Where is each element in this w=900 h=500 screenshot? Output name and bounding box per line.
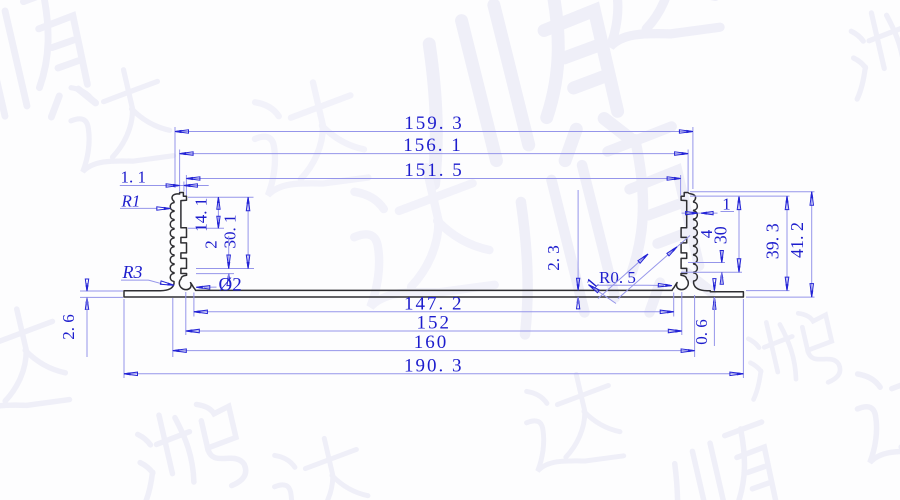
dim 39.3 line+arrows — [763, 196, 789, 291]
dim 1.1 line+arrows — [120, 168, 209, 188]
svg-text:Ø2: Ø2 — [219, 274, 242, 295]
dim 147.2 extension lines — [194, 293, 674, 317]
dim 2 line+arrows — [202, 236, 231, 286]
svg-text:0. 6: 0. 6 — [692, 319, 711, 345]
svg-text:156. 1: 156. 1 — [403, 135, 463, 156]
watermark glyph bottom-right — [654, 422, 784, 500]
svg-text:30. 1: 30. 1 — [221, 215, 240, 249]
svg-text:2: 2 — [202, 240, 221, 249]
dim 159.3 line+arrows — [175, 113, 693, 134]
svg-text:30: 30 — [711, 226, 731, 244]
watermark glyph top-left corner — [0, 0, 98, 137]
dim 151.5 line+arrows — [186, 160, 680, 181]
label Ø2 leader — [196, 274, 241, 295]
dim 156.1 extension lines — [180, 150, 688, 192]
watermark glyph bottom-left — [124, 397, 248, 500]
dim 159.3 extension lines — [175, 127, 693, 189]
dim 190.3 extension lines — [124, 299, 743, 378]
svg-text:190. 3: 190. 3 — [404, 355, 464, 376]
dim 1.1 extension line — [183, 182, 185, 192]
dim 41.2 line+arrows — [787, 192, 813, 297]
svg-text:R3: R3 — [122, 262, 143, 282]
dim 14.1 line+arrows — [192, 197, 221, 232]
dim 2.3 line+arrows — [544, 190, 580, 309]
watermark glyph bottom-center — [518, 368, 625, 476]
svg-text:151. 5: 151. 5 — [404, 160, 464, 181]
dim 0.6 line+arrows — [692, 279, 716, 346]
watermark glyph mid-center — [343, 158, 498, 314]
svg-text:14. 1: 14. 1 — [192, 198, 211, 232]
svg-text:147. 2: 147. 2 — [404, 293, 464, 314]
label R0.5 leader — [598, 268, 672, 287]
svg-text:39. 3: 39. 3 — [763, 223, 783, 259]
watermark glyph bottom small — [266, 432, 373, 500]
dim 39.3/41.2 extension lines — [690, 192, 815, 297]
dim 1 line+arrows — [682, 195, 735, 215]
svg-text:1. 1: 1. 1 — [121, 168, 147, 187]
dim 4 line+arrows — [697, 229, 723, 284]
watermark glyph lower-left edge — [0, 302, 71, 422]
dim 156.1 line+arrows — [180, 135, 688, 156]
watermark glyph right-lower edge — [848, 348, 900, 468]
dim 30.1 line+arrows — [221, 197, 250, 268]
watermark glyph top-right corner — [839, 0, 900, 99]
dim 152 line+arrows — [186, 313, 682, 334]
svg-text:R1: R1 — [121, 192, 141, 211]
aluminum extrusion profile outline (U-channel with serrated walls) — [124, 193, 743, 298]
svg-text:2. 3: 2. 3 — [544, 245, 563, 271]
label R1 leader — [120, 192, 170, 211]
watermark glyph upper-left — [62, 63, 175, 177]
svg-text:160: 160 — [414, 332, 449, 353]
label R3 leader — [121, 262, 174, 285]
dim 30.1 extension line — [196, 268, 254, 270]
svg-text:2. 6: 2. 6 — [59, 314, 78, 340]
diagonal leader c — [618, 236, 690, 299]
watermark glyph top-center large — [391, 0, 633, 193]
watermark glyph center — [485, 127, 714, 343]
watermark glyph mid-left — [245, 75, 370, 201]
dim 2.6 extension lines — [80, 291, 123, 297]
diagonal dim 1 leader a — [582, 274, 616, 304]
dim 152 extension lines — [186, 292, 682, 335]
svg-text:R0. 5: R0. 5 — [599, 268, 636, 287]
svg-text:1: 1 — [722, 195, 731, 214]
watermark glyph right-middle — [737, 307, 843, 400]
svg-text:152: 152 — [417, 313, 452, 334]
dim 151.5 extension lines — [186, 175, 680, 196]
dim 160 extension lines — [173, 295, 695, 357]
dim 2.6 line+arrows — [59, 279, 89, 357]
dim 190.3 line+arrows — [124, 355, 743, 376]
dim 147.2 line+arrows — [194, 293, 674, 314]
svg-text:159. 3: 159. 3 — [404, 113, 464, 134]
svg-text:41. 2: 41. 2 — [787, 222, 807, 258]
dim 30 line+arrows — [711, 196, 741, 272]
dim 4 extension lines — [681, 263, 742, 273]
dim 2 extension line — [196, 273, 234, 275]
watermark glyph top edge — [586, 0, 723, 52]
diagonal dim 1 leader b — [598, 254, 648, 299]
dim 14.1 extension lines — [188, 197, 254, 228]
dim 160 line+arrows — [173, 332, 695, 353]
